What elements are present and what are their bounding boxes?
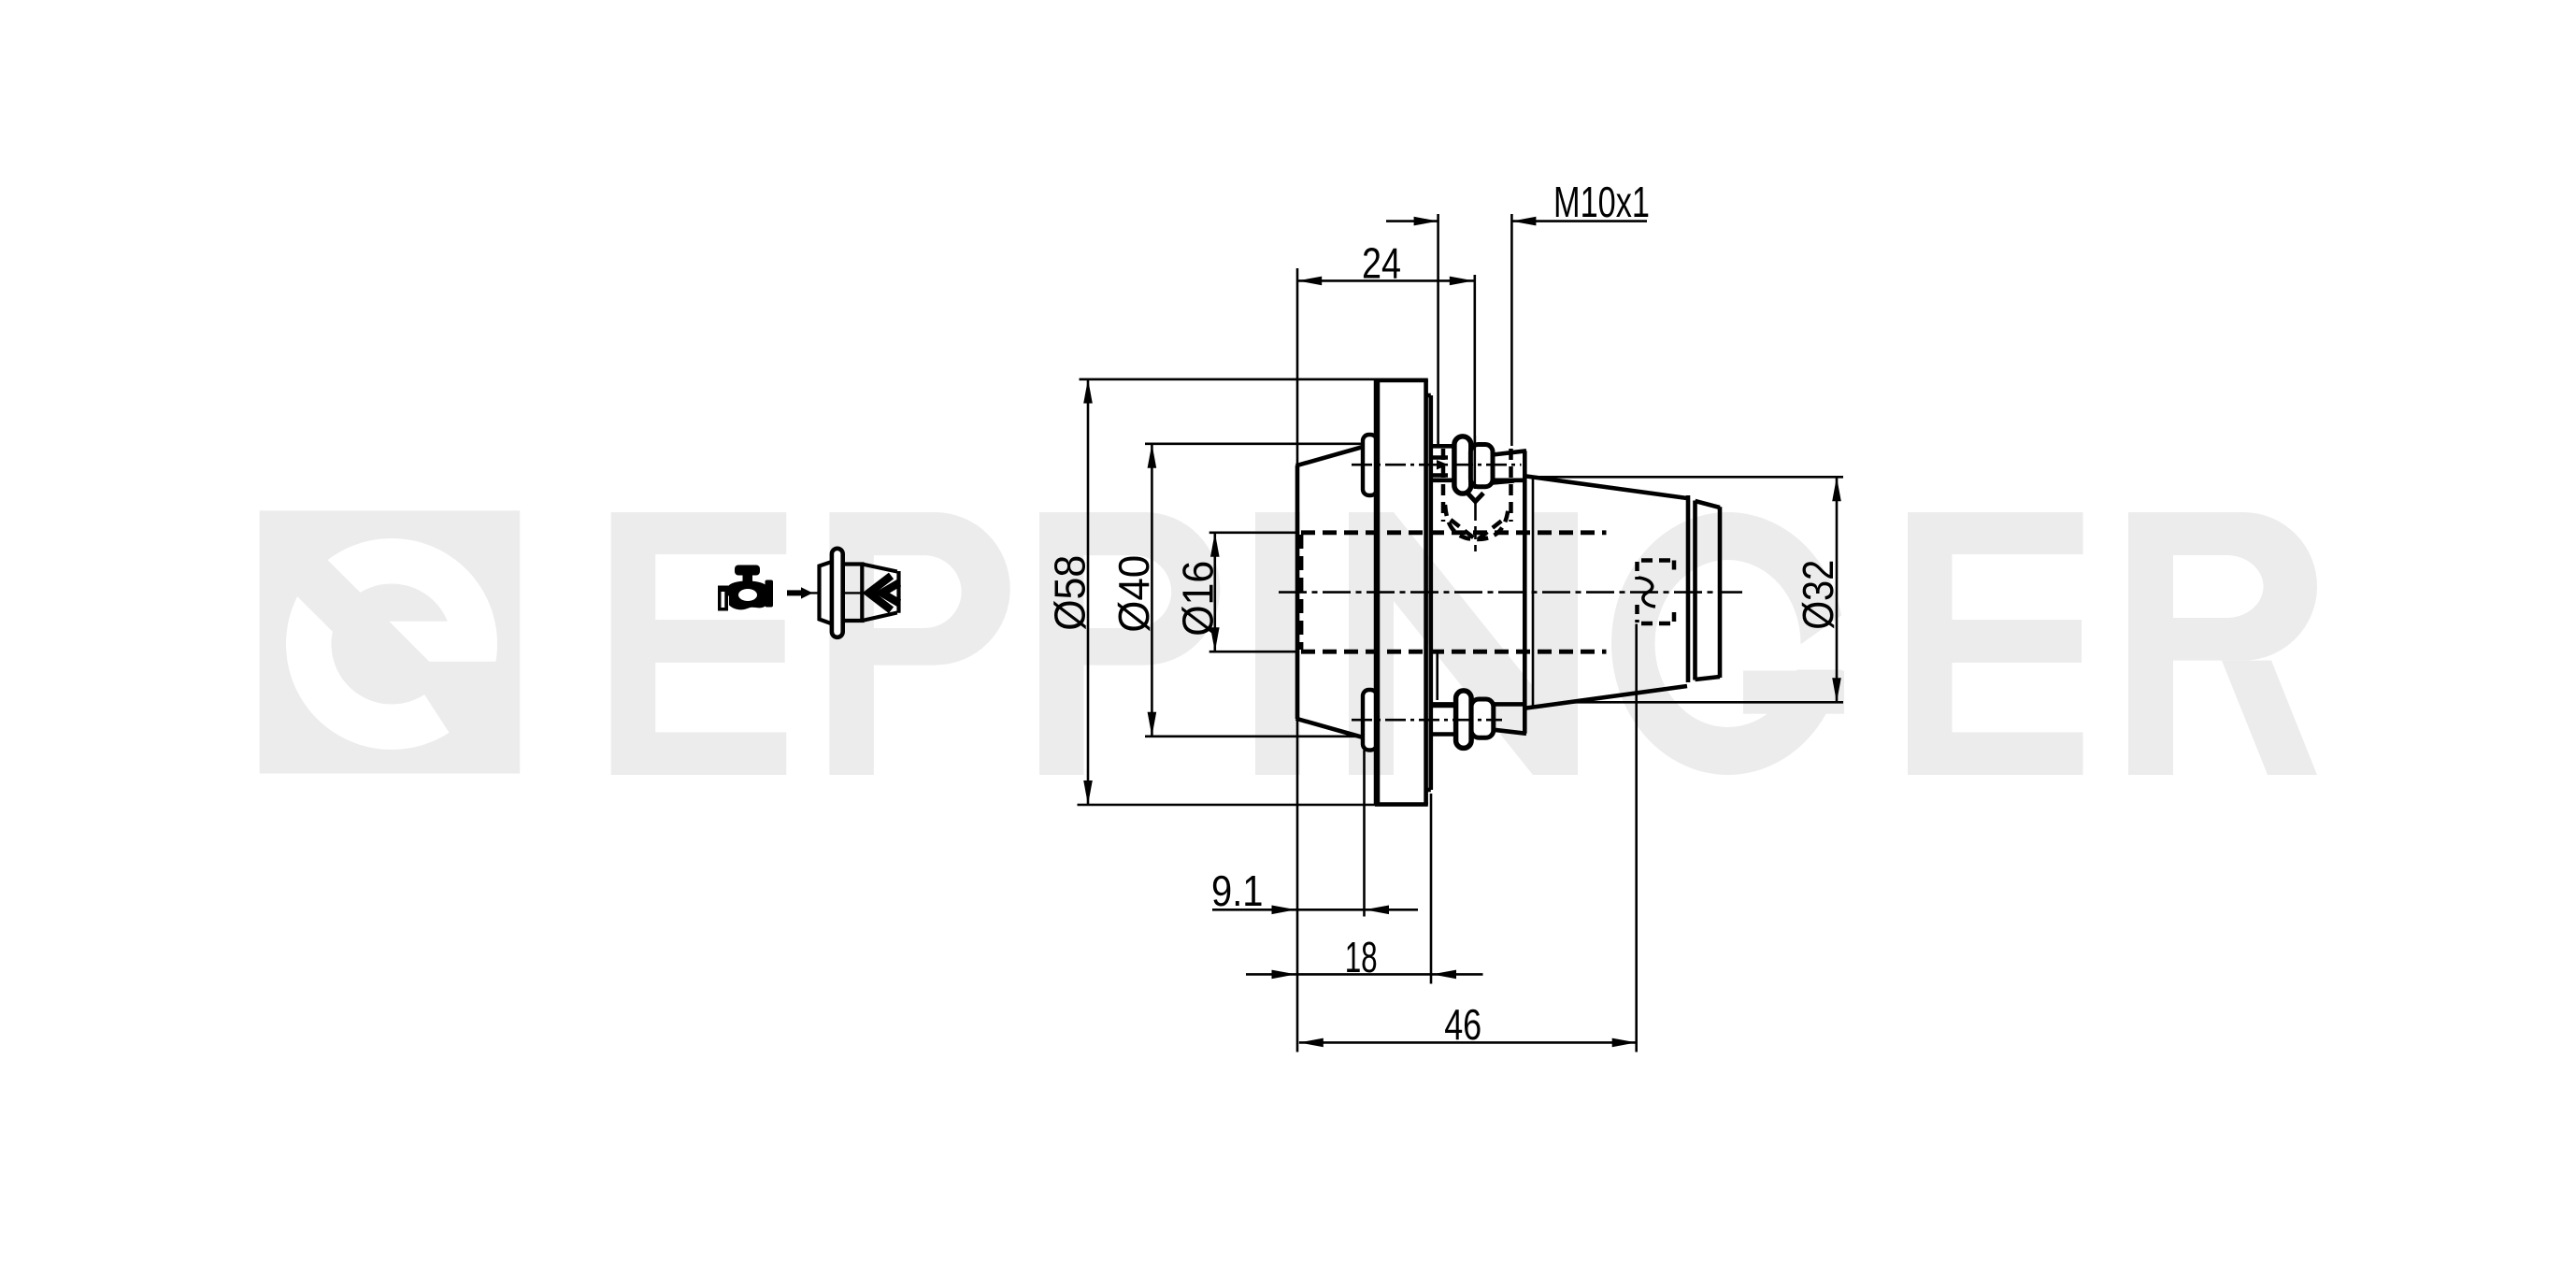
extension line: nose end for 46	[1635, 624, 1638, 1052]
extension line: lug face for 9.1	[1363, 751, 1366, 917]
collet chuck symbol	[800, 592, 870, 594]
dimension M10x1 coolant thread	[1386, 220, 1438, 222]
part outline: nose / collet nut	[1686, 495, 1691, 682]
extension lines: M10x1 thread	[1437, 214, 1439, 446]
flow arrow	[787, 590, 801, 595]
svg-text:Ø58: Ø58	[1046, 555, 1095, 631]
drive lug top	[1363, 435, 1377, 495]
bottom coolant port	[1429, 704, 1456, 708]
part outline: front cone Ø32	[1526, 477, 1687, 499]
svg-text:Ø32: Ø32	[1794, 560, 1842, 630]
main axis centerline	[1279, 591, 1742, 594]
svg-text:Ø40: Ø40	[1109, 555, 1158, 633]
extension line: port axis for 24	[1474, 275, 1477, 477]
svg-text:Ø16: Ø16	[1174, 561, 1223, 637]
drive lug bottom	[1363, 690, 1377, 751]
watermark logo square	[260, 510, 521, 773]
dimension 9.1	[1212, 909, 1418, 911]
part outline: flange Ø58	[1374, 379, 1381, 806]
coolant tube fitting top	[1454, 436, 1471, 494]
svg-text:9.1: 9.1	[1211, 866, 1264, 915]
extension line: back face (datum for 24/9.1/18/46)	[1296, 268, 1299, 465]
dimension 46	[1299, 1041, 1637, 1044]
top coolant port M10x1	[1430, 444, 1454, 449]
dimension Ø16	[1214, 533, 1217, 651]
dimension Ø58	[1087, 379, 1090, 806]
extension lines: taper OD for Ø40	[1145, 442, 1361, 445]
extension line: flange back face for 18	[1430, 794, 1433, 984]
svg-text:24: 24	[1362, 239, 1401, 288]
dimension Ø32	[1836, 477, 1839, 702]
hidden Ø16 bore lines	[1301, 530, 1607, 535]
svg-text:M10x1: M10x1	[1553, 178, 1650, 226]
hidden clamping screw	[1641, 558, 1675, 563]
watermark text EPPINGER	[611, 512, 787, 775]
dimension 24	[1297, 279, 1474, 282]
dimension Ø40	[1151, 444, 1153, 737]
coolant tap icon	[735, 565, 760, 576]
hidden M10 thread cavity	[1441, 449, 1446, 522]
part outline: back taper	[1295, 465, 1300, 719]
coolant tube fitting bottom	[1456, 691, 1472, 749]
watermark logo e-glyph	[328, 538, 497, 662]
extension lines: bore for Ø16	[1209, 531, 1299, 534]
extension lines: cone base for Ø32	[1534, 476, 1843, 479]
dimension 18	[1246, 973, 1483, 976]
part outline: front body	[1432, 478, 1524, 482]
svg-text:46: 46	[1444, 1000, 1481, 1049]
svg-text:18: 18	[1345, 933, 1378, 981]
extension lines: flange OD for Ø58	[1080, 378, 1376, 380]
